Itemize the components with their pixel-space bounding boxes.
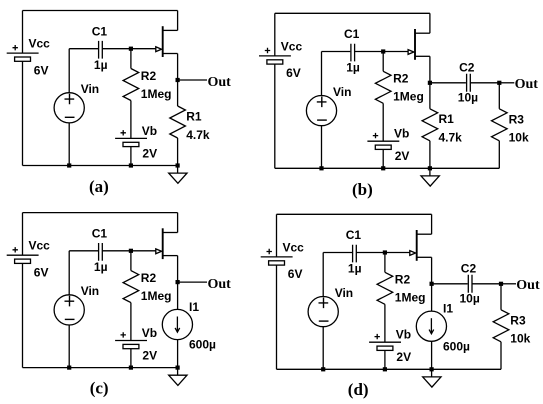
wire bottom rail a bbox=[23, 165, 178, 167]
svg-text:10µ: 10µ bbox=[458, 91, 478, 105]
junction Vb-rail d bbox=[383, 367, 387, 371]
battery Vcc a bbox=[7, 52, 39, 54]
wire source riser a bbox=[177, 54, 179, 81]
svg-text:(c): (c) bbox=[90, 379, 109, 398]
svg-text:Vb: Vb bbox=[394, 127, 409, 141]
svg-text:10k: 10k bbox=[510, 332, 530, 346]
wire R3 bottom d bbox=[500, 342, 502, 370]
svg-text:C2: C2 bbox=[459, 61, 475, 75]
wire top rail a bbox=[23, 10, 178, 12]
svg-text:2V: 2V bbox=[142, 146, 157, 160]
svg-text:1Meg: 1Meg bbox=[395, 291, 426, 305]
wire Vin bottom b bbox=[321, 126, 323, 169]
junction Vin-rail d bbox=[321, 367, 325, 371]
resistor R1 b bbox=[422, 109, 438, 141]
capacitor C2 b bbox=[467, 74, 471, 92]
wire out left d bbox=[432, 283, 468, 285]
battery Vb a bbox=[115, 137, 147, 139]
ground d bbox=[431, 369, 433, 377]
battery Vcc b bbox=[259, 55, 291, 57]
resistor R1 a bbox=[170, 106, 186, 138]
wire left rail upper c bbox=[22, 213, 24, 256]
wire Vb bottom b bbox=[382, 149, 384, 168]
wire left rail upper b bbox=[274, 13, 276, 56]
voltage source Vin c bbox=[54, 295, 84, 325]
transistor J1 a bbox=[162, 26, 164, 57]
junction ground-rail b bbox=[428, 166, 432, 170]
svg-text:1µ: 1µ bbox=[94, 260, 108, 274]
svg-text:C1: C1 bbox=[344, 27, 360, 41]
wire out c bbox=[178, 281, 207, 283]
junction gate node d bbox=[383, 250, 387, 254]
wire R1 bottom b bbox=[429, 141, 431, 169]
wire Vb bottom d bbox=[384, 350, 386, 369]
svg-text:600µ: 600µ bbox=[189, 338, 216, 352]
svg-text:Vin: Vin bbox=[81, 82, 99, 96]
svg-text:1Meg: 1Meg bbox=[393, 90, 424, 104]
svg-text:(b): (b) bbox=[352, 180, 373, 199]
wire Vb bottom a bbox=[130, 147, 132, 166]
wire Vb bottom c bbox=[130, 349, 132, 368]
wire R1 top a bbox=[177, 80, 179, 106]
wire I1 bottom c bbox=[177, 340, 179, 368]
svg-text:R3: R3 bbox=[509, 113, 525, 127]
svg-text:Vin: Vin bbox=[81, 284, 99, 298]
svg-text:(a): (a) bbox=[89, 177, 109, 196]
junction ground-rail c bbox=[176, 366, 180, 370]
wire top rail c bbox=[23, 212, 178, 214]
ground b bbox=[429, 168, 431, 176]
svg-text:10µ: 10µ bbox=[460, 292, 480, 306]
node Out junction c bbox=[176, 280, 180, 284]
svg-text:Vin: Vin bbox=[333, 85, 351, 99]
svg-text:R2: R2 bbox=[393, 72, 409, 86]
junction Vin-rail a bbox=[67, 163, 71, 167]
wire R3 top d bbox=[500, 284, 502, 310]
wire drain riser a bbox=[177, 11, 179, 31]
transistor J1 d bbox=[416, 230, 418, 261]
node Out junction a bbox=[176, 78, 180, 82]
wire R2 bottom d bbox=[384, 304, 386, 342]
wire R1 top b bbox=[429, 83, 431, 109]
junction Vin-rail b bbox=[319, 166, 323, 170]
wire bottom rail b bbox=[275, 167, 500, 169]
svg-text:600µ: 600µ bbox=[443, 339, 470, 353]
wire I1 bottom d bbox=[431, 341, 433, 369]
svg-text:Out: Out bbox=[516, 278, 540, 293]
svg-text:C1: C1 bbox=[346, 228, 362, 242]
battery Vb d bbox=[369, 341, 401, 343]
battery Vcc d bbox=[261, 256, 293, 258]
svg-text:Vb: Vb bbox=[142, 124, 157, 138]
wire drain riser c bbox=[177, 213, 179, 233]
voltage source Vin b bbox=[306, 96, 336, 126]
svg-text:Vcc: Vcc bbox=[29, 37, 51, 51]
wire source riser b bbox=[429, 56, 431, 83]
wire bottom rail c bbox=[23, 367, 178, 369]
wire gate right c bbox=[102, 250, 156, 252]
wire gate left c bbox=[69, 250, 98, 252]
resistor R2 b bbox=[375, 71, 391, 103]
svg-text:Out: Out bbox=[208, 75, 232, 90]
wire R3 top b bbox=[498, 83, 500, 109]
wire Vin top b bbox=[321, 52, 323, 96]
node Out junction b bbox=[428, 81, 432, 85]
svg-text:4.7k: 4.7k bbox=[439, 131, 463, 145]
wire out mid d bbox=[472, 283, 501, 285]
battery Vb c bbox=[115, 340, 147, 342]
battery Vb b bbox=[367, 140, 399, 142]
wire gate left a bbox=[69, 48, 98, 50]
wire R2 top d bbox=[384, 253, 386, 273]
svg-text:I1: I1 bbox=[443, 302, 453, 316]
wire out right d bbox=[501, 283, 516, 285]
ground a bbox=[177, 166, 179, 174]
wire R2 top a bbox=[130, 49, 132, 69]
junction Vb-rail a bbox=[129, 163, 133, 167]
wire Vin bottom c bbox=[68, 325, 70, 368]
svg-text:Out: Out bbox=[208, 277, 232, 292]
junction Vb-rail c bbox=[129, 366, 133, 370]
wire I1 top c bbox=[177, 282, 179, 310]
wire R3 bottom b bbox=[498, 141, 500, 169]
wire R2 top b bbox=[382, 52, 384, 72]
resistor R2 c bbox=[123, 271, 139, 303]
wire I1 top d bbox=[431, 284, 433, 312]
voltage source Vin a bbox=[54, 93, 84, 123]
wire left rail upper d bbox=[276, 214, 278, 257]
wire drain riser d bbox=[431, 214, 433, 234]
svg-text:C1: C1 bbox=[92, 227, 108, 241]
wire gate right d bbox=[356, 252, 410, 254]
svg-text:1Meg: 1Meg bbox=[141, 87, 172, 101]
svg-text:Vb: Vb bbox=[142, 326, 157, 340]
wire out right b bbox=[499, 82, 514, 84]
svg-text:C1: C1 bbox=[92, 24, 108, 38]
junction Vin-rail c bbox=[67, 366, 71, 370]
junction gate node b bbox=[381, 49, 385, 53]
svg-text:R1: R1 bbox=[439, 112, 455, 126]
resistor R3 d bbox=[493, 310, 509, 342]
wire gate left b bbox=[322, 51, 351, 53]
junction out node b bbox=[497, 81, 501, 85]
wire out a bbox=[178, 79, 207, 81]
svg-text:6V: 6V bbox=[286, 66, 301, 80]
svg-text:I1: I1 bbox=[189, 300, 199, 314]
transistor J1 c bbox=[162, 228, 164, 259]
junction out node d bbox=[499, 282, 503, 286]
wire left rail upper a bbox=[22, 11, 24, 54]
capacitor C1 d bbox=[353, 245, 357, 263]
wire out mid b bbox=[470, 82, 499, 84]
wire R2 bottom b bbox=[382, 103, 384, 141]
wire gate left d bbox=[323, 252, 352, 254]
svg-text:1µ: 1µ bbox=[94, 58, 108, 72]
wire R2 bottom c bbox=[130, 303, 132, 341]
svg-text:6V: 6V bbox=[34, 265, 49, 279]
wire Vin top d bbox=[322, 253, 324, 297]
svg-text:C2: C2 bbox=[461, 262, 477, 276]
wire R2 top c bbox=[130, 251, 132, 271]
wire gate right a bbox=[102, 48, 156, 50]
svg-text:6V: 6V bbox=[288, 267, 303, 281]
current source I1 c bbox=[162, 309, 192, 339]
svg-text:Vcc: Vcc bbox=[29, 239, 51, 253]
wire top rail d bbox=[277, 213, 432, 215]
wire Vin top a bbox=[68, 49, 70, 93]
wire R1 bottom a bbox=[177, 138, 179, 166]
svg-text:R2: R2 bbox=[141, 271, 157, 285]
svg-text:1µ: 1µ bbox=[348, 262, 362, 276]
resistor R2 d bbox=[377, 272, 393, 304]
svg-text:4.7k: 4.7k bbox=[186, 128, 210, 142]
junction ground-rail d bbox=[430, 367, 434, 371]
svg-text:2V: 2V bbox=[396, 350, 411, 364]
wire left rail lower b bbox=[274, 64, 276, 168]
svg-text:R2: R2 bbox=[141, 69, 157, 83]
capacitor C1 a bbox=[99, 41, 103, 59]
wire drain riser b bbox=[429, 13, 431, 33]
junction gate node a bbox=[129, 47, 133, 51]
wire out left b bbox=[430, 82, 466, 84]
svg-text:R3: R3 bbox=[510, 314, 526, 328]
svg-text:1Meg: 1Meg bbox=[141, 289, 172, 303]
wire left rail lower c bbox=[22, 264, 24, 368]
wire source riser c bbox=[177, 256, 179, 283]
wire left rail lower d bbox=[276, 265, 278, 369]
resistor R3 b bbox=[492, 109, 508, 141]
wire Vin bottom a bbox=[68, 123, 70, 166]
wire R2 bottom a bbox=[130, 101, 132, 139]
svg-text:2V: 2V bbox=[142, 349, 157, 363]
wire Vin bottom d bbox=[322, 327, 324, 370]
current source I1 d bbox=[416, 311, 446, 341]
transistor J1 b bbox=[414, 29, 416, 60]
svg-text:10k: 10k bbox=[509, 131, 529, 145]
node Out junction d bbox=[430, 282, 434, 286]
wire source riser d bbox=[431, 257, 433, 284]
junction ground-rail a bbox=[176, 163, 180, 167]
svg-text:R2: R2 bbox=[395, 273, 411, 287]
wire top rail b bbox=[275, 12, 430, 14]
svg-text:Vcc: Vcc bbox=[283, 240, 305, 254]
capacitor C1 b bbox=[351, 44, 355, 62]
svg-text:1µ: 1µ bbox=[346, 61, 360, 75]
svg-text:Out: Out bbox=[515, 77, 539, 92]
svg-text:2V: 2V bbox=[395, 149, 410, 163]
wire left rail lower a bbox=[22, 62, 24, 166]
voltage source Vin d bbox=[308, 297, 338, 327]
wire bottom rail d bbox=[277, 368, 502, 370]
capacitor C2 d bbox=[468, 275, 472, 293]
svg-text:6V: 6V bbox=[34, 63, 49, 77]
svg-text:Vb: Vb bbox=[396, 328, 411, 342]
svg-text:Vcc: Vcc bbox=[281, 39, 303, 53]
ground c bbox=[177, 368, 179, 376]
resistor R2 a bbox=[123, 69, 139, 101]
svg-text:(d): (d) bbox=[348, 380, 369, 399]
wire gate right b bbox=[355, 51, 409, 53]
svg-text:R1: R1 bbox=[186, 109, 202, 123]
wire Vin top c bbox=[68, 251, 70, 295]
battery Vcc c bbox=[7, 254, 39, 256]
capacitor C1 c bbox=[99, 243, 103, 261]
junction gate node c bbox=[129, 249, 133, 253]
junction Vb-rail b bbox=[381, 166, 385, 170]
svg-text:Vin: Vin bbox=[335, 286, 353, 300]
